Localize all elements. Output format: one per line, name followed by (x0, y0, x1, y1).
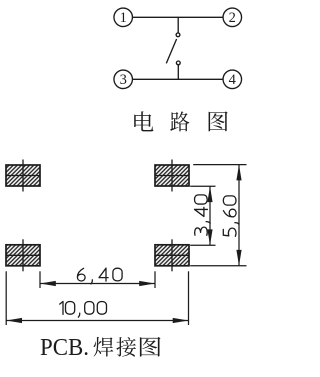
svg-text:3: 3 (120, 72, 127, 88)
svg-text:1: 1 (120, 10, 127, 26)
svg-text:2: 2 (229, 10, 236, 26)
svg-text:4: 4 (229, 72, 237, 88)
svg-text:PCB.: PCB. (40, 334, 89, 361)
